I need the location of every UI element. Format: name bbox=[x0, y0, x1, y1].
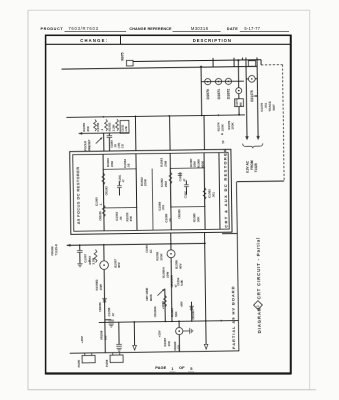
wire stub bbox=[233, 58, 235, 67]
svg-text:20M: 20M bbox=[163, 160, 167, 166]
svg-text:800K: 800K bbox=[201, 160, 205, 168]
wire into network box bbox=[103, 133, 105, 151]
brace under heater arrows bbox=[243, 143, 263, 148]
svg-text:DS972: DS972 bbox=[227, 89, 231, 100]
svg-text:2.2M: 2.2M bbox=[111, 124, 115, 131]
capacitor C1057 with ground bbox=[79, 245, 81, 250]
svg-text:A9 FOCUS DC RESTORER: A9 FOCUS DC RESTORER bbox=[76, 166, 81, 224]
svg-text:.05: .05 bbox=[127, 163, 131, 168]
dashed board boundary right bbox=[283, 65, 285, 181]
trace rotator cluster bbox=[254, 95, 258, 97]
outer table frame bbox=[46, 35, 291, 373]
svg-text:.05: .05 bbox=[119, 216, 123, 221]
svg-text:7603/R7603: 7603/R7603 bbox=[68, 26, 98, 31]
svg-text:C1054: C1054 bbox=[110, 140, 114, 148]
svg-text:1: 1 bbox=[256, 305, 260, 307]
capacitor symbol bbox=[108, 319, 114, 321]
wire vertical node bbox=[200, 67, 203, 116]
resistor symbol bbox=[105, 119, 108, 131]
lamp B1075 bbox=[236, 88, 242, 94]
zener VR1063 with ground bbox=[178, 321, 180, 327]
arrow to CRT heater bbox=[245, 136, 248, 140]
svg-text:CR1063: CR1063 bbox=[105, 186, 108, 196]
wire heater 2 bbox=[257, 57, 258, 136]
svg-text:.1: .1 bbox=[98, 203, 102, 206]
svg-text:5-17-77: 5-17-77 bbox=[244, 26, 260, 31]
wire focus chain bbox=[79, 132, 129, 135]
svg-text:PARTIAL A9 HV BOARD: PARTIAL A9 HV BOARD bbox=[230, 286, 236, 350]
wire to board edge bbox=[222, 232, 237, 234]
header: PRODUCT / CHANGE REFERENCE / DATE bbox=[41, 27, 239, 31]
svg-text:C1091: C1091 bbox=[185, 190, 188, 198]
neon lamp DS1075 bbox=[248, 75, 255, 82]
diagram number diamond bbox=[253, 301, 262, 310]
wire bbox=[170, 153, 171, 230]
wire bbox=[204, 153, 205, 230]
svg-text:100K: 100K bbox=[231, 122, 235, 130]
svg-text:VR1063: VR1063 bbox=[173, 341, 177, 351]
scan page edge lines bbox=[27, 10, 29, 390]
wire bbox=[103, 154, 104, 231]
svg-text:DS971: DS971 bbox=[217, 89, 221, 100]
resistor symbol bbox=[203, 187, 206, 199]
dashed board boundary top bbox=[261, 64, 282, 66]
svg-text:.05: .05 bbox=[168, 218, 172, 223]
svg-text:P1055: P1055 bbox=[78, 359, 81, 367]
boxed capacitor C1052 bbox=[120, 120, 129, 133]
svg-text:100K: 100K bbox=[159, 253, 163, 261]
svg-text:CR1085: CR1085 bbox=[177, 209, 181, 219]
wire bbox=[237, 60, 239, 88]
svg-text:200K: 200K bbox=[143, 178, 147, 186]
resistor symbol bbox=[102, 173, 105, 185]
wire bbox=[219, 153, 220, 230]
svg-text:(.05): (.05) bbox=[117, 143, 121, 149]
table header row line bbox=[46, 43, 291, 45]
wire mid bus bbox=[99, 320, 239, 322]
resistor R1057 symbol bbox=[94, 250, 97, 263]
wire bbox=[185, 180, 187, 184]
resistor symbol bbox=[169, 172, 172, 184]
svg-text:OF: OF bbox=[179, 365, 185, 370]
wire into box bbox=[134, 116, 136, 150]
svg-text:CHANGE REFERENCE: CHANGE REFERENCE bbox=[129, 27, 172, 31]
wire top bus 1 bbox=[133, 60, 261, 62]
PAGE 1 OF 5 footer bbox=[155, 365, 193, 371]
pot arrow bbox=[96, 137, 103, 143]
svg-text:(.1): (.1) bbox=[120, 144, 124, 148]
wire bbox=[108, 138, 110, 151]
svg-text:47: 47 bbox=[111, 313, 115, 317]
wire bbox=[108, 133, 110, 135]
pot CRT GRID BIAS bbox=[164, 289, 166, 322]
arrowhead from T1125 bbox=[67, 244, 71, 247]
capacitor C1091A bbox=[184, 184, 189, 186]
svg-text:TP: TP bbox=[221, 140, 225, 144]
junction bbox=[237, 59, 239, 61]
wire bottom bus bbox=[70, 351, 239, 353]
svg-text:C1091: C1091 bbox=[119, 174, 122, 182]
boxed pin component bbox=[248, 61, 255, 67]
svg-text:CHANGE:: CHANGE: bbox=[80, 38, 108, 43]
svg-text:T1125-8: T1125-8 bbox=[54, 244, 58, 256]
header underlines bbox=[65, 30, 127, 32]
svg-text:CR1063A: CR1063A bbox=[154, 306, 157, 317]
sub-network box 2 bbox=[170, 168, 204, 207]
svg-text:C1052: C1052 bbox=[122, 124, 124, 132]
svg-text:50K: 50K bbox=[174, 311, 178, 317]
svg-text:CR1055: CR1055 bbox=[98, 211, 102, 221]
svg-text:5.6K: 5.6K bbox=[180, 280, 184, 286]
svg-text:M30318: M30318 bbox=[191, 26, 209, 31]
resistor symbol bbox=[102, 205, 105, 217]
wire stub to ground bbox=[183, 330, 190, 332]
DC restorer network box outer bbox=[70, 149, 232, 234]
svg-text:CR1063: CR1063 bbox=[192, 310, 195, 320]
svg-text:4.7M: 4.7M bbox=[125, 126, 128, 131]
capacitor symbol bbox=[178, 173, 182, 175]
neon lamp DS970 bbox=[205, 79, 211, 85]
boxed component C1075 bbox=[235, 99, 244, 107]
wire bbox=[185, 187, 187, 194]
svg-text:DS970: DS970 bbox=[206, 89, 210, 100]
wire stub bbox=[105, 319, 111, 321]
pot arrow bbox=[157, 289, 164, 296]
svg-text:T1025: T1025 bbox=[254, 163, 258, 172]
svg-text:VR1056: VR1056 bbox=[100, 330, 104, 340]
svg-text:30K: 30K bbox=[129, 215, 133, 221]
svg-text:ROT: ROT bbox=[272, 104, 276, 111]
wire corner down bbox=[260, 60, 262, 65]
svg-text:.001: .001 bbox=[211, 192, 215, 198]
arrow to CRT heater bbox=[256, 136, 259, 140]
wire top bus 2 bbox=[62, 66, 258, 69]
wire bbox=[136, 154, 137, 231]
wire bbox=[170, 258, 173, 322]
svg-text:10W: 10W bbox=[99, 284, 103, 290]
wire stub bbox=[212, 58, 214, 67]
wire down left chain bbox=[104, 269, 105, 352]
ground bbox=[109, 324, 114, 327]
svg-text:90V: 90V bbox=[178, 263, 182, 268]
node B bbox=[205, 233, 207, 345]
capacitor with ground near bottom bbox=[118, 322, 120, 344]
svg-text:20M: 20M bbox=[164, 181, 168, 187]
gas lamp B1056 bbox=[170, 233, 172, 250]
wire bbox=[238, 94, 240, 99]
svg-text:DIAGRAM: DIAGRAM bbox=[257, 307, 262, 334]
svg-text:CR1056: CR1056 bbox=[98, 302, 102, 312]
svg-text:DESCRIPTION: DESCRIPTION bbox=[193, 38, 232, 43]
wire from T1125 bbox=[67, 243, 206, 245]
arrowhead left bbox=[79, 132, 83, 135]
svg-text:CRT GRID: CRT GRID bbox=[145, 288, 149, 301]
svg-text:DATE: DATE bbox=[227, 27, 238, 31]
svg-text:100K: 100K bbox=[220, 123, 224, 131]
wire into box bbox=[203, 115, 205, 149]
ground (sideways) bbox=[190, 328, 193, 334]
gas lamp B1057 bbox=[103, 245, 105, 261]
svg-text:90V: 90V bbox=[117, 262, 121, 267]
resistor R975 box bbox=[126, 60, 133, 66]
svg-text:20K: 20K bbox=[86, 125, 90, 131]
wire stub bbox=[241, 58, 243, 60]
svg-text:.1: .1 bbox=[100, 129, 104, 132]
diode CR1056 symbol bbox=[103, 298, 107, 302]
svg-text:R975: R975 bbox=[121, 52, 125, 60]
wire main bus bbox=[66, 115, 244, 117]
wire bbox=[118, 188, 120, 195]
svg-text:.001: .001 bbox=[161, 204, 165, 210]
DC restorer network box inner bbox=[73, 152, 229, 231]
capacitor C1054 bbox=[107, 135, 113, 137]
svg-text:PAGE: PAGE bbox=[155, 365, 166, 370]
svg-text:10V: 10V bbox=[103, 335, 107, 340]
svg-text:20M: 20M bbox=[110, 161, 114, 167]
wire into box bbox=[169, 116, 171, 150]
svg-text:30K: 30K bbox=[196, 216, 200, 222]
thicker bottom and right frame strokes bbox=[46, 372, 291, 374]
capacitor C1091 bbox=[117, 185, 122, 187]
diode CR1063 bbox=[191, 302, 193, 321]
neon lamp DS972 bbox=[225, 78, 231, 84]
svg-text:P1056: P1056 bbox=[106, 359, 109, 367]
wire interior bbox=[151, 169, 154, 230]
svg-text:C1056: C1056 bbox=[145, 245, 149, 253]
svg-text:+30V: +30V bbox=[80, 336, 84, 343]
neon lamp DS971 bbox=[215, 78, 221, 84]
svg-text:C1075: C1075 bbox=[237, 99, 239, 107]
test point bbox=[221, 133, 223, 135]
svg-text:2.2M: 2.2M bbox=[92, 257, 96, 264]
wire heater 1 bbox=[246, 58, 247, 137]
svg-text:+50V: +50V bbox=[180, 301, 183, 307]
svg-text:+12V: +12V bbox=[177, 344, 181, 350]
resistor symbol bbox=[116, 119, 119, 131]
svg-text:+100V: +100V bbox=[161, 301, 165, 309]
wire lamp row bbox=[201, 80, 244, 83]
resistor symbol bbox=[94, 120, 97, 132]
svg-text:CRT CIRCUIT - Partial: CRT CIRCUIT - Partial bbox=[256, 237, 262, 299]
wire bbox=[238, 107, 240, 115]
wire bbox=[118, 181, 120, 185]
svg-text:+15V: +15V bbox=[157, 330, 161, 337]
sub-network box 1 bbox=[103, 169, 136, 208]
svg-text:BIAS: BIAS bbox=[149, 294, 153, 301]
connector P1055 bbox=[84, 353, 86, 355]
board boundary step bbox=[237, 180, 284, 183]
svg-text:10K: 10K bbox=[167, 340, 171, 346]
A9 HV board right edge bbox=[237, 182, 239, 352]
connector P1056 bbox=[112, 353, 114, 355]
svg-text:PRODUCT: PRODUCT bbox=[41, 27, 64, 31]
svg-text:PRESET: PRESET bbox=[87, 139, 91, 151]
node A bbox=[133, 322, 135, 345]
column divider bbox=[120, 35, 122, 44]
